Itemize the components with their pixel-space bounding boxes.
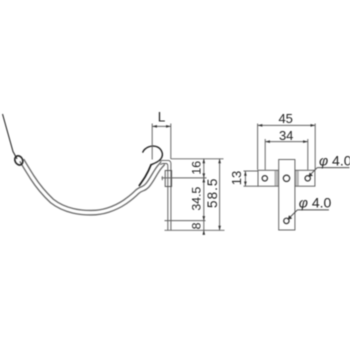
tick2 hole centerline	[162, 177, 207, 179]
svg-text:45: 45	[278, 111, 292, 126]
svg-text:16: 16	[190, 161, 204, 175]
L extension left	[151, 124, 153, 160]
svg-text:58.5: 58.5	[205, 178, 220, 208]
centerline cross dash	[161, 176, 163, 180]
right hole	[305, 176, 310, 181]
svg-text:34: 34	[279, 128, 293, 143]
tick4 bottom	[165, 229, 225, 231]
clip on strip	[165, 171, 171, 187]
right flange shading	[295, 171, 298, 186]
tick1 top	[171, 158, 224, 160]
left hole	[262, 176, 267, 181]
hook curl with dark strap edge	[139, 165, 151, 186]
tick3 lower hole centerline	[165, 220, 206, 222]
vertical bar	[279, 160, 295, 231]
svg-text:34.5: 34.5	[190, 187, 204, 211]
center hole	[283, 175, 289, 181]
L extension right	[170, 124, 172, 160]
bottom hole	[284, 218, 289, 223]
svg-text:L: L	[158, 109, 166, 124]
svg-text:8: 8	[190, 222, 204, 229]
left flange shading	[275, 171, 279, 186]
plate tab horizontal (side view)	[158, 160, 171, 230]
svg-text:φ 4.0: φ 4.0	[319, 153, 350, 169]
inner dim line 16/34.5/8	[203, 159, 205, 235]
horizontal bar	[258, 170, 315, 186]
svg-text:φ 4.0: φ 4.0	[299, 195, 332, 211]
wire rod	[3, 114, 18, 159]
strap band (U curve, double line)	[22, 160, 163, 213]
svg-text:13: 13	[229, 171, 244, 185]
L dim line	[152, 125, 170, 127]
outer dim line 58.5	[219, 159, 221, 231]
rod knot loop	[13, 154, 24, 166]
